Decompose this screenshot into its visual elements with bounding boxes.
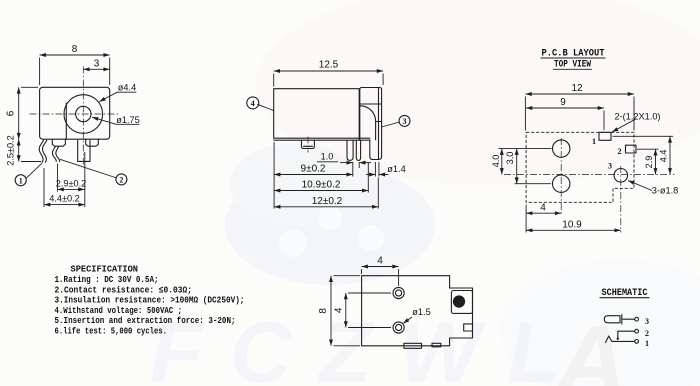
svg-text:4: 4 bbox=[334, 307, 345, 313]
label circle 2 bbox=[60, 159, 127, 185]
bottom view tab B bbox=[432, 343, 441, 347]
side view body bbox=[274, 89, 370, 141]
schematic pin 3 wire bbox=[623, 318, 635, 320]
pcb vertical centerline bbox=[560, 138, 562, 216]
bottom view notch right bbox=[464, 324, 473, 331]
dimension 12±0.2 bbox=[274, 178, 378, 209]
bottom view switch contact bbox=[453, 296, 464, 307]
dimension 4 pcb bottom bbox=[526, 203, 561, 233]
specification line 5 bbox=[55, 315, 236, 326]
dimension 9±0.2 bbox=[274, 142, 353, 209]
svg-text:6.life test: 5,000 cycles.: 6.life test: 5,000 cycles. bbox=[55, 325, 168, 336]
svg-text:2-(1.2X1.0): 2-(1.2X1.0) bbox=[615, 112, 661, 122]
pcb pad hole A bbox=[553, 140, 570, 157]
specification title bbox=[71, 263, 139, 274]
front view outer circle bbox=[64, 95, 103, 134]
specification line 6 bbox=[55, 325, 168, 336]
pcb pad hole 3 bbox=[614, 169, 628, 183]
dimension diameter 1.4 bbox=[366, 162, 406, 177]
svg-text:4: 4 bbox=[540, 203, 546, 214]
svg-text:2.5±0.2: 2.5±0.2 bbox=[6, 135, 16, 166]
svg-text:ø1.4: ø1.4 bbox=[387, 164, 405, 174]
svg-text:8: 8 bbox=[318, 308, 329, 314]
dimension 2.9 pcb bbox=[637, 149, 659, 174]
dimension 1.0 bbox=[317, 152, 371, 177]
svg-text:3-ø1.8: 3-ø1.8 bbox=[652, 186, 679, 196]
svg-text:3: 3 bbox=[403, 117, 407, 126]
dimension 10.9±0.2 bbox=[274, 163, 368, 193]
watermark tint washes bbox=[255, 0, 700, 386]
label circle 4 bbox=[247, 97, 274, 111]
schematic pin 3 terminal bbox=[635, 317, 639, 321]
svg-text:1: 1 bbox=[592, 137, 596, 146]
dimension 9 pcb bbox=[526, 97, 604, 130]
dimension 4 bottom inner bbox=[334, 293, 392, 328]
front view left stub pin bbox=[52, 139, 65, 146]
schematic title bbox=[600, 288, 649, 299]
svg-text:2: 2 bbox=[645, 329, 649, 338]
pcb pad hole B bbox=[553, 175, 570, 192]
pcb title bbox=[541, 49, 606, 71]
svg-text:ø1.75: ø1.75 bbox=[116, 115, 140, 125]
svg-text:12.5: 12.5 bbox=[319, 60, 339, 71]
front view inner circle bbox=[76, 106, 91, 121]
svg-text:2.9: 2.9 bbox=[644, 156, 654, 169]
schematic pin 2 terminal bbox=[635, 329, 639, 333]
schematic pin 3 label bbox=[645, 317, 649, 326]
schematic switch caret bbox=[606, 336, 612, 343]
label 2-(1.2X1.0) bbox=[612, 112, 661, 133]
dimension 12.5 bbox=[274, 60, 383, 87]
specification line 3 bbox=[55, 295, 245, 306]
side view barrel bbox=[360, 88, 382, 160]
pcb pad number 1 bbox=[592, 137, 596, 146]
label 3-diameter1.8 bbox=[628, 181, 678, 196]
svg-text:4: 4 bbox=[377, 256, 383, 267]
svg-text:4.4: 4.4 bbox=[659, 150, 669, 163]
front view center pin bbox=[78, 140, 90, 161]
side view bump bbox=[302, 137, 315, 153]
schematic sleeve symbol bbox=[604, 316, 620, 323]
dimension 4.4±0.2 bbox=[44, 152, 85, 207]
pcb horizontal centerline bbox=[504, 173, 675, 175]
dimension 4.0 pcb bbox=[491, 149, 552, 175]
svg-text:1: 1 bbox=[19, 176, 23, 185]
svg-text:8: 8 bbox=[72, 44, 78, 55]
svg-text:10.9: 10.9 bbox=[562, 219, 582, 230]
pcb pad3 vertical centerline bbox=[620, 166, 622, 233]
schematic pin 1 label bbox=[645, 339, 649, 348]
svg-text:6: 6 bbox=[6, 110, 17, 116]
bottom view hole A bbox=[393, 287, 404, 298]
label diameter 1.75 bbox=[92, 115, 140, 125]
side view leg 2 bbox=[356, 140, 360, 160]
front view bent leg 1 bbox=[39, 140, 47, 162]
front view vertical centerline bbox=[82, 67, 84, 167]
bottom view outline bbox=[362, 276, 473, 346]
dimension 4.4 pcb bbox=[613, 136, 674, 174]
svg-text:SPECIFICATION: SPECIFICATION bbox=[71, 263, 139, 274]
svg-text:2.9±0.2: 2.9±0.2 bbox=[56, 178, 87, 188]
svg-text:4: 4 bbox=[251, 99, 255, 108]
svg-text:4.4±0.2: 4.4±0.2 bbox=[49, 194, 80, 204]
pcb pad square 1 bbox=[599, 132, 611, 140]
front view bent leg 2 bbox=[52, 146, 59, 161]
specification line 1 bbox=[55, 274, 159, 285]
label circle 3 bbox=[382, 115, 411, 127]
dimension 3 bbox=[83, 58, 109, 69]
schematic pin 2 contact dot bbox=[617, 338, 619, 340]
front view body bbox=[40, 87, 110, 139]
svg-text:2: 2 bbox=[119, 176, 123, 185]
bottom view hole B bbox=[393, 322, 404, 333]
bottom view tab A bbox=[404, 343, 422, 348]
front view chord line bbox=[65, 103, 67, 139]
dimension 3.0 pcb bbox=[505, 149, 551, 184]
svg-text:12±0.2: 12±0.2 bbox=[312, 196, 343, 207]
label circle 1 bbox=[15, 163, 42, 186]
side view leg 1 bbox=[347, 140, 353, 160]
schematic pin 2 label bbox=[645, 329, 649, 338]
watermark center blob bbox=[225, 143, 435, 285]
specification line 4 bbox=[55, 305, 183, 316]
dimension 10.9 pcb bottom bbox=[526, 219, 621, 230]
schematic pin 1 wire bbox=[612, 340, 635, 342]
svg-text:3: 3 bbox=[645, 317, 649, 326]
specification line 2 bbox=[55, 284, 193, 295]
pcb pad square 2 bbox=[626, 145, 637, 153]
svg-text:3.0: 3.0 bbox=[505, 152, 515, 165]
svg-text:3: 3 bbox=[608, 162, 612, 171]
dimension 2.9±0.2 bbox=[56, 164, 87, 192]
svg-text:10.9±0.2: 10.9±0.2 bbox=[302, 180, 341, 191]
schematic pin 2 wire bbox=[618, 331, 635, 339]
svg-text:ø4.4: ø4.4 bbox=[118, 83, 136, 93]
svg-text:TOP VIEW: TOP VIEW bbox=[554, 60, 591, 71]
svg-text:2: 2 bbox=[618, 147, 622, 156]
svg-text:12: 12 bbox=[571, 83, 583, 94]
dimension 8 bbox=[40, 44, 110, 85]
svg-text:A: A bbox=[552, 305, 627, 386]
pcb pad number 3 bbox=[608, 162, 612, 171]
label diameter 4.4 bbox=[99, 83, 136, 102]
schematic tip bar bbox=[621, 315, 623, 325]
svg-text:1: 1 bbox=[645, 339, 649, 348]
bottom view switch box bbox=[451, 291, 472, 314]
dimension 6 bbox=[6, 87, 39, 139]
svg-text:1.0: 1.0 bbox=[321, 152, 334, 162]
front view right stub pin bbox=[86, 139, 99, 146]
front view horizontal centerline bbox=[30, 113, 121, 115]
schematic pin 1 terminal bbox=[635, 340, 639, 344]
dimension 8 bottom bbox=[318, 276, 360, 346]
svg-text:9±0.2: 9±0.2 bbox=[301, 164, 326, 175]
svg-text:3: 3 bbox=[94, 58, 100, 69]
dimension 4 bottom top bbox=[362, 256, 399, 287]
svg-text:ø1.5: ø1.5 bbox=[412, 307, 430, 317]
label diameter 1.5 bbox=[403, 307, 431, 324]
pcb outline bbox=[526, 132, 634, 202]
svg-text:4.0: 4.0 bbox=[491, 155, 501, 168]
dimension 12 pcb bbox=[525, 83, 634, 131]
dimension 2.5±0.2 bbox=[6, 135, 42, 166]
pcb pad number 2 bbox=[618, 147, 622, 156]
svg-text:9: 9 bbox=[560, 97, 566, 108]
